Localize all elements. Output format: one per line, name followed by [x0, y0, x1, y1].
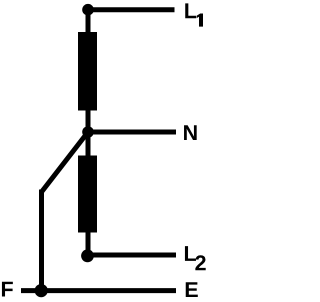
label F	[2, 282, 13, 297]
wire: diagonal from N node to left branch	[42, 132, 89, 192]
label L2: letter L	[185, 246, 196, 261]
wire: L2 horizontal	[88, 253, 176, 258]
label N	[184, 125, 197, 140]
resistor R1 (upper)	[78, 32, 97, 111]
label L2: subscript 2	[195, 255, 205, 270]
wire: left vertical branch	[39, 190, 44, 291]
label E	[186, 282, 198, 297]
label L1: subscript 1	[197, 14, 203, 27]
resistor R2 (lower)	[78, 156, 97, 233]
wire: bottom horizontal F-E	[21, 288, 176, 293]
node: L2 terminal dot	[81, 249, 94, 262]
wire: main vertical (L1 node through R1, N node, R2, to L2 node)	[86, 10, 91, 256]
wire: N horizontal	[88, 130, 176, 135]
node: F junction dot on bottom wire	[35, 284, 48, 297]
node: N junction dot	[82, 126, 94, 138]
wire: L1 top horizontal	[88, 7, 175, 12]
label L1: letter L	[185, 3, 196, 18]
node: L1 terminal dot	[82, 4, 94, 16]
